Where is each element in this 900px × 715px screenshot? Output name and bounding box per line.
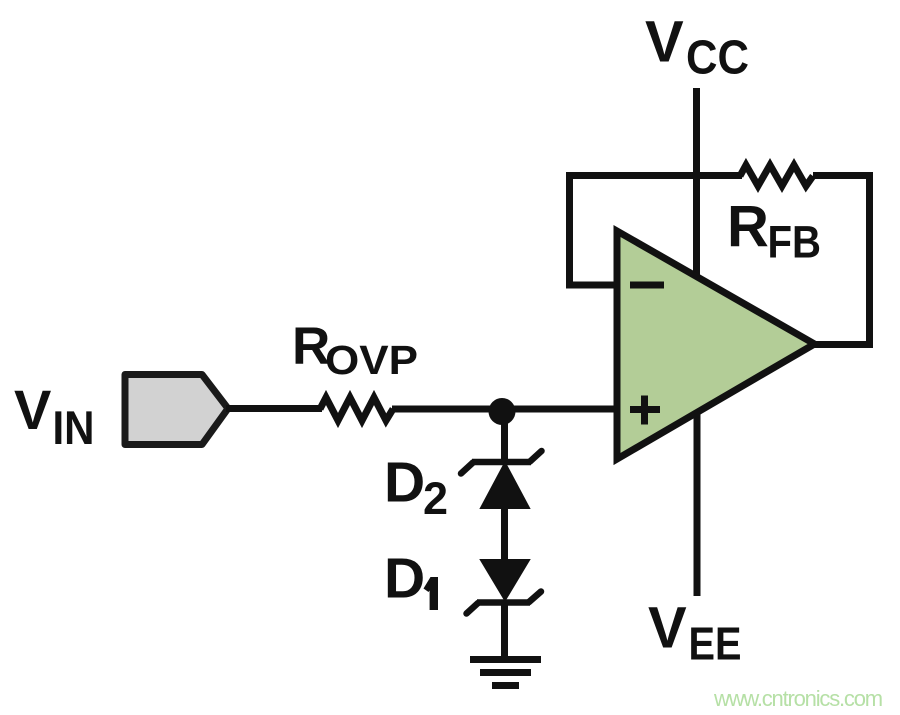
label ROVP bbox=[292, 317, 418, 383]
wire minus input bbox=[566, 282, 618, 289]
input terminal VIN bbox=[125, 375, 228, 445]
svg-text:EE: EE bbox=[689, 618, 742, 670]
wire feedback left vertical bbox=[566, 172, 573, 289]
svg-text:D: D bbox=[384, 547, 425, 611]
op-amp U1 bbox=[617, 231, 815, 459]
resistor ROVP bbox=[320, 398, 393, 421]
svg-text:IN: IN bbox=[53, 401, 95, 454]
label D1 bbox=[384, 547, 438, 611]
svg-text:V: V bbox=[648, 596, 687, 661]
svg-text:2: 2 bbox=[423, 473, 448, 524]
node VEE label bbox=[648, 596, 742, 670]
ground bbox=[470, 660, 541, 686]
label D2 bbox=[384, 451, 448, 525]
wire D2 to D1 bbox=[501, 505, 508, 562]
wire feedback top right bbox=[813, 172, 873, 179]
wire VCC vertical bbox=[693, 88, 700, 278]
svg-text:R: R bbox=[727, 195, 769, 260]
node VIN label bbox=[14, 378, 95, 454]
wire feedback right vertical bbox=[866, 172, 873, 348]
resistor RFB bbox=[740, 165, 813, 186]
wire feedback top bbox=[566, 172, 742, 179]
svg-text:www.cntronics.com: www.cntronics.com bbox=[713, 686, 882, 711]
svg-text:FB: FB bbox=[768, 217, 822, 268]
wire node to D2 bbox=[501, 409, 508, 463]
svg-text:OVP: OVP bbox=[325, 337, 418, 383]
node junction dot bbox=[489, 398, 516, 425]
label RFB bbox=[727, 195, 821, 268]
zener diode D1 bbox=[467, 560, 542, 614]
wire resistor to op-amp plus input bbox=[392, 406, 620, 413]
wire terminal to resistor bbox=[226, 405, 322, 412]
wire D1 to ground bbox=[501, 601, 508, 660]
svg-text:CC: CC bbox=[686, 32, 749, 85]
svg-text:D: D bbox=[384, 451, 425, 515]
zener diode D2 bbox=[461, 451, 542, 508]
op-amp plus pin bbox=[630, 396, 660, 425]
node VCC label bbox=[645, 10, 749, 85]
wire output bbox=[812, 341, 873, 348]
wire VEE vertical bbox=[694, 412, 701, 596]
svg-text:V: V bbox=[645, 10, 684, 75]
op-amp minus pin bbox=[630, 282, 664, 289]
svg-text:V: V bbox=[14, 378, 51, 441]
